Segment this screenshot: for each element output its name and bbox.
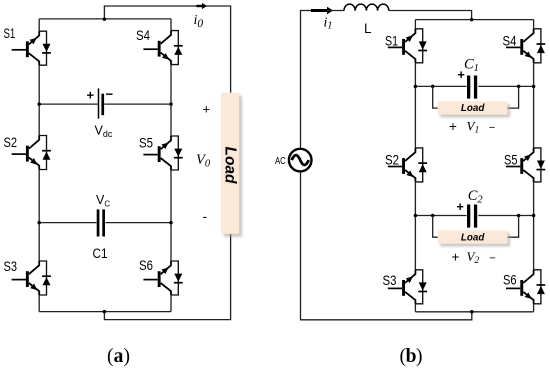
node: right capacitor junction: [169, 221, 173, 225]
load box 1 (b): [440, 104, 510, 117]
svg-text:S4: S4: [136, 28, 150, 43]
svg-text:+: +: [87, 88, 95, 103]
wire: right rail segments (a): [170, 19, 172, 312]
capacitor C1 (a): [97, 209, 100, 236]
node: right battery junction: [169, 102, 173, 106]
node: load 2 left tap junction (b): [431, 214, 435, 218]
svg-text:−: −: [489, 122, 495, 134]
load box (a): [224, 96, 242, 237]
arrow: output current direction i0: [196, 5, 203, 7]
node: junction top (a): [103, 17, 107, 21]
svg-text:−: −: [489, 253, 495, 265]
wire: load 1 left bracket (b): [433, 86, 438, 108]
node: top feed junction (b): [470, 18, 474, 22]
wire: load 2 right bracket (b): [508, 216, 519, 238]
svg-text:-: -: [203, 208, 208, 224]
wire: AC bottom return (b): [301, 172, 472, 320]
node: load 2 right tap junction (b): [517, 214, 521, 218]
svg-text:L: L: [364, 21, 372, 36]
wire: left rail segments (b): [414, 20, 416, 312]
svg-text:Vdc: Vdc: [95, 124, 113, 140]
svg-text:+: +: [457, 200, 464, 214]
transistor S6 (a): [143, 261, 182, 295]
transistor S4 (a): [143, 31, 182, 65]
wire: top bridge rail (a): [39, 18, 171, 20]
wire: left rail segments (a): [38, 19, 40, 312]
svg-text:Load: Load: [461, 231, 485, 243]
svg-text:AC: AC: [275, 156, 286, 167]
node: junction bottom (a): [103, 310, 107, 314]
wire: top output loop to load (a): [104, 6, 230, 93]
transistor S4 (b): [506, 29, 545, 63]
capacitor C1 (b): [467, 76, 470, 99]
svg-text:S5: S5: [139, 136, 153, 151]
wire: load 2 left bracket (b): [433, 216, 438, 238]
svg-text:S4: S4: [503, 34, 517, 49]
wire: bottom bridge rail (a): [39, 311, 171, 313]
transistor S2 (a): [12, 136, 51, 170]
svg-text:Load: Load: [222, 147, 239, 185]
node: left capacitor junction: [37, 221, 41, 225]
svg-text:S3: S3: [383, 273, 397, 288]
wire: load 1 right bracket (b): [508, 86, 519, 108]
transistor S1 (b): [388, 29, 427, 63]
node: C1 rail left junction (b): [414, 85, 418, 89]
svg-text:C2: C2: [468, 188, 484, 205]
wire: top bridge rail (b): [415, 19, 533, 21]
node: C2 rail right junction (b): [532, 214, 536, 218]
svg-text:−: −: [106, 87, 114, 102]
arrow: input current i1: [311, 9, 327, 12]
wire: capacitor middle rail (a): [39, 222, 171, 224]
inductor L: [344, 4, 389, 11]
wire: right rail segments (b): [533, 20, 535, 312]
node: C2 rail left junction (b): [414, 214, 418, 218]
svg-text:V2: V2: [467, 249, 480, 266]
svg-text:i1: i1: [324, 15, 333, 31]
svg-text:VC: VC: [96, 193, 110, 209]
svg-text:i0: i0: [194, 13, 204, 30]
node: load 1 right tap junction (b): [517, 85, 521, 89]
wire: bottom return loop to load (a): [104, 234, 230, 320]
node: load 1 left tap junction (b): [431, 85, 435, 89]
transistor S3 (b): [388, 270, 427, 304]
svg-text:+: +: [203, 102, 211, 117]
svg-text:(a): (a): [107, 346, 130, 367]
svg-text:S1: S1: [385, 34, 398, 49]
svg-text:S6: S6: [503, 273, 517, 288]
svg-text:V1: V1: [467, 118, 480, 135]
capacitor C2 (b): [467, 205, 470, 228]
transistor S5 (b): [506, 148, 545, 182]
transistor S1 (a): [12, 31, 51, 65]
svg-text:C1: C1: [93, 246, 108, 261]
svg-text:S6: S6: [139, 258, 153, 273]
load box 2 (b): [440, 233, 510, 246]
node: bottom return junction (b): [470, 310, 474, 314]
transistor S2 (b): [388, 148, 427, 182]
svg-text:S2: S2: [4, 135, 18, 150]
svg-text:+: +: [452, 250, 460, 265]
wire: capacitor C2 rail (b): [415, 215, 533, 217]
transistor S5 (a): [143, 136, 182, 170]
svg-text:S2: S2: [385, 153, 399, 168]
transistor S3 (a): [12, 261, 51, 295]
source AC: [289, 149, 312, 172]
svg-text:+: +: [458, 68, 465, 82]
svg-text:S5: S5: [504, 153, 518, 168]
battery Vdc: [98, 88, 100, 118]
wire: segment before inductor (b): [327, 10, 344, 12]
svg-text:+: +: [449, 119, 457, 134]
wire: AC top lead (b): [301, 11, 312, 149]
wire: bottom bridge rail (b): [415, 311, 533, 313]
svg-text:S3: S3: [4, 259, 18, 274]
svg-text:S1: S1: [4, 26, 16, 41]
node: C1 rail right junction (b): [532, 85, 536, 89]
wire: capacitor C1 rail (b): [415, 85, 533, 87]
svg-text:Load: Load: [461, 102, 485, 114]
node: left battery junction: [37, 102, 41, 106]
svg-text:C1: C1: [464, 57, 479, 74]
transistor S6 (b): [506, 270, 545, 304]
wire: dc-link middle rail (a): [39, 103, 171, 105]
wire: top feed to bridge (b): [389, 11, 472, 20]
svg-text:(b): (b): [400, 346, 423, 367]
svg-text:V0: V0: [196, 152, 211, 170]
